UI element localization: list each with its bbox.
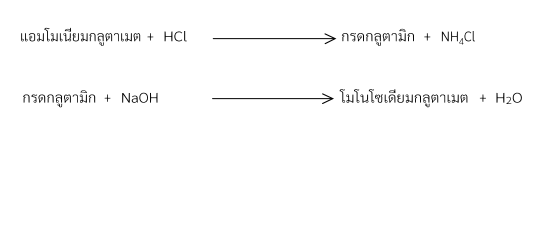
plus sign, line 1 right <box>424 33 430 40</box>
product formula H2O with subscript 2, line 2 <box>497 93 522 104</box>
plus sign, line 2 right <box>480 95 486 102</box>
reaction arrow, line 1 <box>213 34 335 44</box>
reactant "แอมโมเนียมกลูตาเมต" (ammonium glutamate), line 1 <box>21 28 140 46</box>
reactant "กรดกลูตามิก" (glutamic acid), line 2 <box>23 90 95 107</box>
reactant formula HCl, line 1 <box>165 31 187 41</box>
product formula NH4Cl with subscript 4, line 1 <box>442 31 475 45</box>
product "โมโนโซเดียมกลูตาเมต" (monosodium glutamate), line 2 <box>340 89 468 107</box>
product "กรดกลูตามิก" (glutamic acid), line 1 <box>342 29 414 46</box>
reaction arrow, line 2 <box>213 94 333 104</box>
plus sign, line 2 left <box>105 95 111 102</box>
plus sign, line 1 left <box>148 33 154 40</box>
reactant formula NaOH, line 2 <box>122 93 157 103</box>
